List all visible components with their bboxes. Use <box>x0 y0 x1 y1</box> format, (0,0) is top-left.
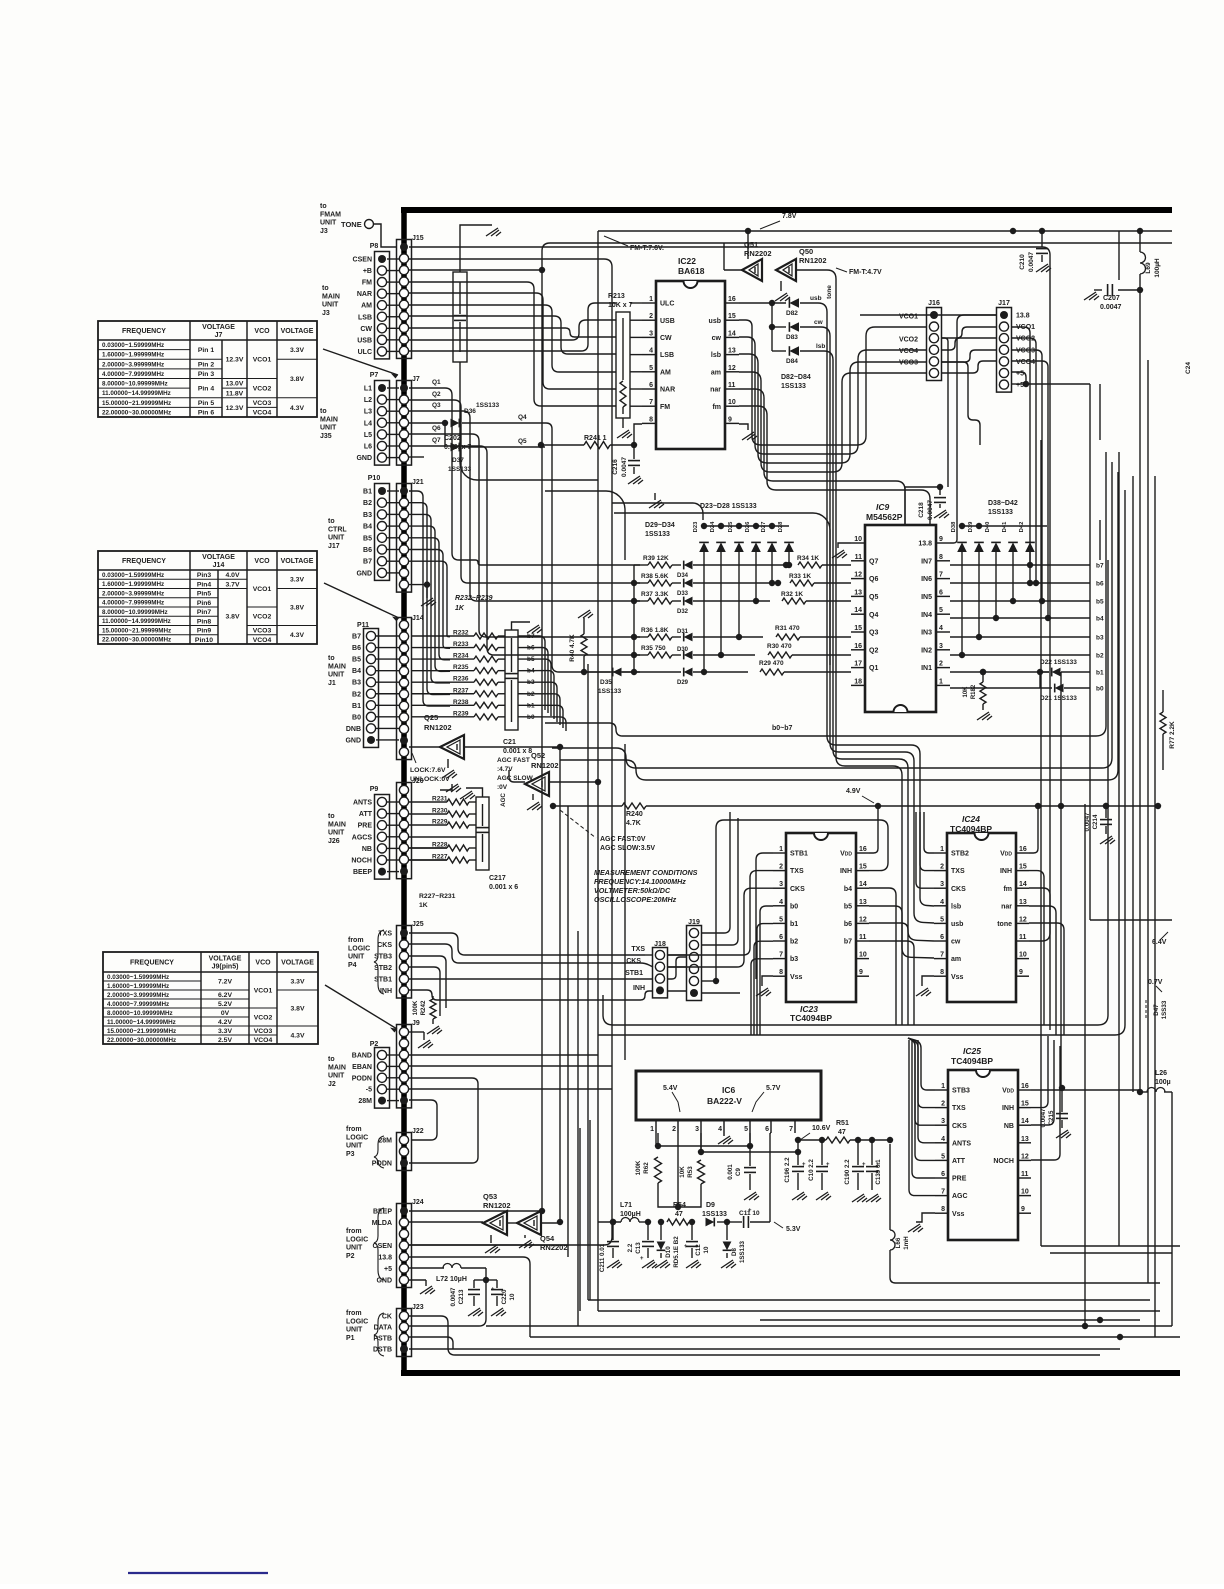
svg-text:B3: B3 <box>363 512 372 519</box>
resistor R240 4.7K <box>622 803 646 809</box>
connector J23 <box>397 1309 412 1357</box>
svg-text:C13: C13 <box>635 1242 642 1254</box>
svg-text:FM: FM <box>660 404 670 411</box>
svg-text:R35 750: R35 750 <box>641 645 666 652</box>
svg-text:J2: J2 <box>328 1081 336 1088</box>
wire L5 to row <box>409 434 640 637</box>
svg-text:Q50: Q50 <box>799 247 813 256</box>
svg-text:10: 10 <box>859 952 867 959</box>
wire vertical x568 <box>567 806 569 1257</box>
wire: P8-J15 stubs <box>387 258 399 260</box>
svg-text:C24: C24 <box>1185 362 1192 374</box>
wire: P10-J21 stubs <box>387 490 399 492</box>
svg-text:R53: R53 <box>687 1166 694 1178</box>
ground at J21 <box>426 585 428 598</box>
inductor L66 1mH <box>889 1144 891 1230</box>
svg-text:usb: usb <box>951 921 963 928</box>
svg-text:5.4V: 5.4V <box>663 1085 678 1092</box>
svg-text:D38: D38 <box>951 521 957 532</box>
capacitor C217 0.001x6 block <box>476 797 489 870</box>
svg-text:Q6: Q6 <box>432 425 441 432</box>
svg-text:7.2V: 7.2V <box>218 978 232 985</box>
svg-text:TXS: TXS <box>951 868 965 875</box>
wire CKS long <box>409 944 653 967</box>
ground left of IC9 area <box>654 493 656 500</box>
svg-text:C10 2.2: C10 2.2 <box>808 1159 815 1181</box>
svg-text:3.3V: 3.3V <box>291 978 305 985</box>
ground at IC6 pin4 <box>723 1133 725 1136</box>
svg-text:ATT: ATT <box>359 811 373 818</box>
svg-text:VDD: VDD <box>1000 851 1012 858</box>
svg-text:D82~D84: D82~D84 <box>781 374 811 381</box>
svg-text:0.0047: 0.0047 <box>1100 304 1122 311</box>
wire second top rail <box>542 243 1172 270</box>
wire lsb drop <box>800 351 934 941</box>
brace for J25 group <box>374 930 384 994</box>
connector P7 <box>375 381 390 466</box>
transistor Q54 RN2202 <box>517 1211 541 1235</box>
svg-text:VCO3: VCO3 <box>254 1028 273 1035</box>
svg-text:1SS133: 1SS133 <box>598 688 622 695</box>
svg-text:13: 13 <box>859 899 867 906</box>
svg-text:1.60000~1.99999MHz: 1.60000~1.99999MHz <box>107 983 169 990</box>
svg-text:R240: R240 <box>626 811 643 818</box>
ground under Q52 <box>532 794 534 800</box>
svg-text:P2: P2 <box>370 1041 379 1048</box>
svg-text:AGC: AGC <box>500 793 507 807</box>
svg-text:to: to <box>328 1056 335 1063</box>
svg-text:8.00000~10.99999MHz: 8.00000~10.99999MHz <box>102 609 168 616</box>
ground IC24 Vss <box>922 976 934 986</box>
svg-text:Pin 4: Pin 4 <box>198 386 214 393</box>
svg-text:Q1: Q1 <box>432 379 441 386</box>
svg-text:11.00000~14.99999MHz: 11.00000~14.99999MHz <box>102 618 171 625</box>
svg-text:12.3V: 12.3V <box>226 357 244 364</box>
wire D36 out Q4 <box>462 422 540 424</box>
connector J15 <box>397 240 412 359</box>
svg-text:L69: L69 <box>1145 262 1152 274</box>
svg-text:VOLTAGE: VOLTAGE <box>202 324 235 331</box>
svg-text:+5: +5 <box>384 1266 392 1273</box>
svg-text:Vss: Vss <box>790 974 803 981</box>
svg-text:D27: D27 <box>761 522 767 533</box>
svg-text:to: to <box>320 203 327 210</box>
svg-text:8: 8 <box>941 1206 945 1213</box>
wire bottom rail 1337 <box>530 1336 1180 1338</box>
svg-text:AM: AM <box>660 369 671 376</box>
svg-text:b0: b0 <box>790 903 798 910</box>
svg-text:Pin 6: Pin 6 <box>198 410 214 417</box>
svg-text:B1: B1 <box>363 489 372 496</box>
svg-text:J22: J22 <box>412 1128 424 1135</box>
svg-text:R40 4.7K: R40 4.7K <box>569 634 576 662</box>
svg-text:FM: FM <box>362 280 372 287</box>
wire L3 to row <box>409 411 640 601</box>
wire loop around IC23 24 <box>603 560 1108 1025</box>
svg-text:VOLTAGE: VOLTAGE <box>281 960 314 967</box>
connector P11 <box>364 629 379 748</box>
svg-text:FREQUENCY: FREQUENCY <box>130 960 174 967</box>
capacitor C13 2.2 <box>645 1219 651 1225</box>
svg-text:47: 47 <box>838 1129 846 1136</box>
wire J19 tops <box>701 812 730 933</box>
svg-text:4.9V: 4.9V <box>846 788 861 795</box>
wire band fm <box>739 406 930 525</box>
svg-text:+: + <box>862 1162 866 1168</box>
svg-text:B5: B5 <box>363 535 372 542</box>
svg-text:b1: b1 <box>790 921 798 928</box>
svg-text:D32: D32 <box>677 609 689 615</box>
svg-text:b5: b5 <box>1096 599 1104 606</box>
svg-text:1SS133: 1SS133 <box>988 509 1013 516</box>
resistor R53 10K <box>700 1133 702 1152</box>
wire J16 pin5 step <box>941 362 980 445</box>
capacitor C202 0.001x7 block <box>453 272 467 362</box>
svg-text:M54562P: M54562P <box>866 512 903 522</box>
svg-text:MAIN: MAIN <box>322 293 340 300</box>
svg-text:Pin 1: Pin 1 <box>198 347 214 354</box>
svg-text:VCO4: VCO4 <box>899 348 918 355</box>
svg-text:D33: D33 <box>677 591 689 597</box>
capacitor C214 0.0047 <box>1103 803 1109 809</box>
svg-text:INH: INH <box>840 868 852 875</box>
svg-text:1SS133: 1SS133 <box>781 383 806 390</box>
diode D8 1SS133 <box>724 1219 730 1225</box>
svg-text:13.0V: 13.0V <box>226 381 244 388</box>
svg-text:TXS: TXS <box>952 1105 966 1112</box>
diode D30 <box>684 651 693 660</box>
svg-text:RN1202: RN1202 <box>531 761 559 770</box>
svg-text:Q2: Q2 <box>432 391 441 398</box>
svg-text:4: 4 <box>941 1136 945 1143</box>
svg-text:R30 470: R30 470 <box>767 643 792 650</box>
wire band cw <box>739 337 927 454</box>
svg-text:IC25: IC25 <box>963 1046 981 1056</box>
wire Q51 input from 7.8V line <box>747 231 749 259</box>
capacitor C216 0.0047 <box>633 445 635 459</box>
svg-text:D29: D29 <box>677 680 689 686</box>
svg-text:5.3V: 5.3V <box>786 1226 801 1233</box>
svg-text:18: 18 <box>854 678 862 685</box>
decorative bottom-left blue rule <box>128 1572 268 1574</box>
svg-text:AGC FAST:0V: AGC FAST:0V <box>600 836 646 843</box>
svg-text:7: 7 <box>789 1126 793 1133</box>
wire IC24 right outs <box>1029 871 1044 1025</box>
table: VCO voltage table for J9 <box>103 952 318 1044</box>
wire J23 DSTB <box>409 1348 1120 1350</box>
svg-text:15.00000~21.99999MHz: 15.00000~21.99999MHz <box>102 400 171 407</box>
svg-text:RN1202: RN1202 <box>799 256 827 265</box>
svg-text:LSB: LSB <box>660 352 674 359</box>
svg-text:b2: b2 <box>1096 653 1104 660</box>
svg-text:7: 7 <box>779 952 783 959</box>
svg-text:TXS: TXS <box>631 946 645 953</box>
svg-text:6: 6 <box>765 1126 769 1133</box>
svg-text:VCO2: VCO2 <box>253 614 272 621</box>
wire D82-D84 anode bus <box>771 303 773 351</box>
wire IC23 INH loop <box>716 820 888 981</box>
svg-text:2.00000~3.99999MHz: 2.00000~3.99999MHz <box>107 992 169 999</box>
svg-text:UNIT: UNIT <box>328 1073 345 1080</box>
svg-text:7: 7 <box>649 399 653 406</box>
inductor L72 10uH <box>409 1267 444 1269</box>
svg-text:7: 7 <box>939 572 943 579</box>
svg-text:LOGIC: LOGIC <box>348 945 370 952</box>
diode D83 1SS133 <box>789 322 799 332</box>
svg-text:LOCK:7.6V: LOCK:7.6V <box>410 767 446 774</box>
svg-text:J14: J14 <box>412 615 424 622</box>
connector J14 <box>397 618 412 760</box>
svg-text:b7: b7 <box>844 939 852 946</box>
wire: P2-J9 stubs <box>387 1054 399 1056</box>
table: VCO voltage table for J14 <box>98 551 317 644</box>
svg-text:Q5: Q5 <box>869 594 878 601</box>
svg-text:VCO1: VCO1 <box>253 357 272 364</box>
svg-text:12: 12 <box>728 365 736 372</box>
svg-text:B4: B4 <box>352 668 361 675</box>
svg-text:R36 1.8K: R36 1.8K <box>641 627 669 634</box>
svg-text:D36: D36 <box>464 408 476 415</box>
svg-text:4: 4 <box>649 348 653 355</box>
wire vertical x542 <box>541 270 543 1211</box>
svg-text:14: 14 <box>1021 1118 1029 1125</box>
svg-text:UNIT: UNIT <box>328 830 345 837</box>
capacitor C12 10 <box>689 1219 695 1225</box>
svg-text:C211 0.01: C211 0.01 <box>599 1243 606 1272</box>
svg-text:12: 12 <box>1019 916 1027 923</box>
wire vertical x578 <box>577 931 579 1326</box>
svg-text:R242: R242 <box>420 1000 427 1015</box>
svg-text:5.7V: 5.7V <box>766 1085 781 1092</box>
wire IC25 INH up <box>1031 1036 1048 1108</box>
capacitor C213 0.0047 <box>483 1277 489 1283</box>
svg-text:b6: b6 <box>1096 581 1104 588</box>
svg-text:+: + <box>826 1162 830 1168</box>
wire x1133 vertical <box>1132 476 1134 1092</box>
wire: P7-J7 stubs <box>387 387 399 389</box>
wire: arrow from table J9 to connector J9 <box>325 985 397 1029</box>
svg-text:UNIT: UNIT <box>320 425 337 432</box>
diodes D23-D28 1SS133 <box>704 525 789 527</box>
svg-text:+B: +B <box>363 268 372 275</box>
wire IC24 Vdd up <box>1029 806 1038 853</box>
svg-text:D21 1SS133: D21 1SS133 <box>1040 695 1077 702</box>
wire J23 CK <box>409 1316 1100 1355</box>
svg-text:J17: J17 <box>998 300 1010 307</box>
svg-text:Pin4: Pin4 <box>197 581 212 588</box>
wire 5.3V node up to IC6 pin6 <box>769 1133 771 1222</box>
svg-text:FREQUENCY:14.10000MHz: FREQUENCY:14.10000MHz <box>594 877 686 886</box>
svg-text:J21: J21 <box>412 479 424 486</box>
svg-text:100K: 100K <box>635 1160 642 1175</box>
svg-text:ANTS: ANTS <box>952 1140 971 1147</box>
svg-text:to: to <box>322 285 329 292</box>
wire IC23 TXS feed <box>668 871 773 955</box>
svg-text:15.00000~21.99999MHz: 15.00000~21.99999MHz <box>102 627 171 634</box>
wire Q53 Q54 link <box>507 1222 517 1224</box>
svg-text:B2: B2 <box>363 500 372 507</box>
svg-text:USB: USB <box>660 318 675 325</box>
svg-text:GND: GND <box>356 455 372 462</box>
diode D36 1SS133 <box>409 422 445 424</box>
wire D23-D28 cathode drops <box>703 552 705 672</box>
resistor R77 2.2K <box>1162 690 1164 712</box>
svg-text:usb: usb <box>709 318 721 325</box>
wire IC9 pin9 13.8 to J17 <box>950 315 997 543</box>
svg-text:C196 2.2: C196 2.2 <box>784 1157 791 1183</box>
svg-text:1.60000~1.99999MHz: 1.60000~1.99999MHz <box>102 581 164 588</box>
wire D37 out Q5 <box>462 446 545 448</box>
ground under Q53 <box>490 1235 492 1243</box>
svg-text:STB1: STB1 <box>374 977 392 984</box>
svg-text:Pin8: Pin8 <box>197 618 212 625</box>
svg-text:CKS: CKS <box>952 1123 967 1130</box>
svg-text:Pin 3: Pin 3 <box>198 371 214 378</box>
svg-text:b4: b4 <box>1096 616 1104 623</box>
svg-text:IC22: IC22 <box>678 256 696 266</box>
svg-text:P2: P2 <box>346 1253 355 1260</box>
svg-text:J24: J24 <box>412 1199 424 1206</box>
svg-text:B6: B6 <box>363 547 372 554</box>
svg-text:1K: 1K <box>455 605 465 612</box>
wire CSEN rail to J24 <box>409 259 612 1245</box>
wire IC6 left vert <box>589 1120 591 1300</box>
svg-text:J9: J9 <box>412 1020 420 1027</box>
svg-text:J3: J3 <box>320 228 328 235</box>
wire J16 pin3 down <box>941 338 948 487</box>
svg-text:D31: D31 <box>677 629 689 635</box>
svg-text:R29 470: R29 470 <box>759 660 784 667</box>
svg-text:2: 2 <box>779 864 783 871</box>
svg-text:+5: +5 <box>1016 382 1024 389</box>
wire J22 PODN up <box>409 1078 478 1163</box>
svg-text:VOLTAGE: VOLTAGE <box>209 956 242 963</box>
svg-text:22.00000~30.00000MHz: 22.00000~30.00000MHz <box>102 637 171 644</box>
svg-text:11: 11 <box>859 934 867 941</box>
svg-text:BEEP: BEEP <box>353 869 372 876</box>
wire x1155 vertical <box>1154 476 1156 1337</box>
svg-text:PRE: PRE <box>358 823 373 830</box>
svg-text:8.00000~10.99999MHz: 8.00000~10.99999MHz <box>107 1010 173 1017</box>
svg-text:R51: R51 <box>836 1120 849 1127</box>
svg-text:NAR: NAR <box>357 291 372 298</box>
svg-text:DATA: DATA <box>374 1325 392 1332</box>
svg-text:RN1202: RN1202 <box>483 1201 511 1210</box>
wire J9 BAND line <box>409 1054 598 1056</box>
svg-text:B5: B5 <box>352 657 361 664</box>
wire J23 PSTB <box>409 1337 453 1349</box>
wire Q51-Q50 link <box>724 269 742 271</box>
capacitor C10 2.2 <box>819 1137 825 1143</box>
ground under C216 <box>628 476 643 484</box>
svg-text:ULC: ULC <box>660 301 674 308</box>
svg-text:B7: B7 <box>352 634 361 641</box>
svg-text:AGC SLOW: AGC SLOW <box>497 775 534 782</box>
svg-text:D35: D35 <box>600 679 612 686</box>
svg-text:AGC FAST: AGC FAST <box>497 757 530 764</box>
wire L6 to row <box>409 446 640 655</box>
svg-text:12: 12 <box>854 572 862 579</box>
svg-text:VCO2: VCO2 <box>899 337 918 344</box>
svg-text:C214: C214 <box>1092 814 1099 829</box>
svg-text:BA618: BA618 <box>678 266 705 276</box>
svg-text:9: 9 <box>939 536 943 543</box>
ground at J9 <box>423 1032 425 1040</box>
svg-text:VCO: VCO <box>254 558 270 565</box>
connector P2 <box>375 1048 390 1109</box>
inductor L69 100uH <box>1139 231 1141 252</box>
wire IC25 NOCH out <box>1031 1046 1060 1160</box>
wire x1119 lower <box>1118 700 1120 1246</box>
svg-text:14: 14 <box>728 330 736 337</box>
capacitor C220 10 <box>486 1279 497 1281</box>
wire D22 branch <box>1040 671 1049 673</box>
svg-text:VOLTAGE: VOLTAGE <box>281 558 314 565</box>
svg-text:from: from <box>346 1228 362 1235</box>
ic IC25 TC4094BP <box>948 1070 1018 1240</box>
wire IC23 Vdd up <box>869 806 878 853</box>
svg-text:D37: D37 <box>452 457 464 464</box>
wire J24 BEEP line <box>409 1210 542 1212</box>
wire b bus loop mid <box>552 462 1112 768</box>
svg-text:cw: cw <box>951 939 961 946</box>
svg-text:0.0047: 0.0047 <box>1028 252 1035 272</box>
svg-text:1SS133: 1SS133 <box>702 1211 727 1218</box>
svg-text:12.3V: 12.3V <box>226 405 244 412</box>
svg-text:OSCILLOSCOPE:20MHz: OSCILLOSCOPE:20MHz <box>594 895 677 904</box>
svg-text:4: 4 <box>939 625 943 632</box>
ground IC9 pin10 <box>838 543 851 548</box>
svg-text:L5: L5 <box>364 432 372 439</box>
svg-text:D38~D42: D38~D42 <box>988 500 1018 507</box>
svg-text:UNIT: UNIT <box>322 302 339 309</box>
svg-text:6: 6 <box>939 589 943 596</box>
svg-text:AM: AM <box>361 303 372 310</box>
wire vertical x625 <box>624 744 626 1060</box>
wire R213 to IC22 pins <box>630 302 642 304</box>
wire STB2 curve <box>409 967 440 1016</box>
svg-text:2: 2 <box>939 661 943 668</box>
svg-text:22.00000~30.00000MHz: 22.00000~30.00000MHz <box>102 409 171 416</box>
svg-text:D83: D83 <box>786 334 798 341</box>
wire bottom rail 1311 <box>598 1310 1160 1312</box>
svg-text:b2: b2 <box>790 939 798 946</box>
svg-text:5: 5 <box>744 1126 748 1133</box>
svg-text:J26: J26 <box>328 838 340 845</box>
svg-text:UNIT: UNIT <box>348 954 365 961</box>
svg-text:VOLTAGE: VOLTAGE <box>281 328 314 335</box>
svg-text:UNIT: UNIT <box>346 1143 363 1150</box>
svg-text:7: 7 <box>941 1189 945 1196</box>
svg-text:5: 5 <box>941 1153 945 1160</box>
svg-text:GND: GND <box>345 737 361 744</box>
svg-text:AGCS: AGCS <box>352 834 373 841</box>
svg-text:Q53: Q53 <box>483 1192 497 1201</box>
wire: thick left vertical bus <box>401 207 407 1376</box>
svg-text:6.2V: 6.2V <box>218 992 232 999</box>
svg-text:R38 5.6K: R38 5.6K <box>641 573 669 580</box>
svg-text:0.03000~1.59999MHz: 0.03000~1.59999MHz <box>102 342 164 349</box>
svg-text:LOGIC: LOGIC <box>346 1236 368 1243</box>
svg-text:3: 3 <box>940 881 944 888</box>
svg-text:lsb: lsb <box>951 903 961 910</box>
svg-text:VCO1: VCO1 <box>254 987 273 994</box>
svg-text:P1: P1 <box>346 1335 355 1342</box>
svg-text:B4: B4 <box>363 524 372 531</box>
svg-text:J16: J16 <box>928 300 940 307</box>
wire J17 13.8 line left <box>860 314 997 316</box>
svg-text:1SS33: 1SS33 <box>1161 1000 1168 1019</box>
